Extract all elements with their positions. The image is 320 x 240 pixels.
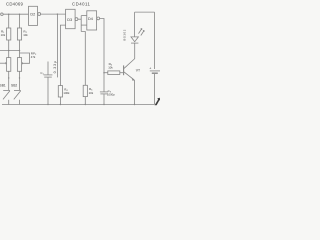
wire R5 to ground rail — [84, 97, 86, 105]
wire R1 top lead — [8, 14, 10, 28]
wire D3 out to tie bar — [78, 18, 81, 20]
transistor VT emitter — [124, 72, 134, 80]
wire R1 to RP1 — [8, 40, 10, 58]
node C3 tap — [103, 72, 105, 74]
wire R6 left lead — [104, 72, 108, 74]
svg-text:+: + — [149, 66, 151, 70]
wire D2 out to D3 input — [41, 13, 66, 15]
wire R6 to VT base — [120, 72, 123, 74]
node divider left — [8, 50, 10, 52]
resistor R5 — [83, 85, 87, 96]
wire top rail — [135, 11, 155, 13]
svg-text:47k: 47k — [31, 55, 36, 59]
switch SB1 — [3, 89, 10, 91]
wire C3 to ground rail — [103, 94, 105, 104]
svg-text:0.33μ: 0.33μ — [53, 60, 57, 73]
potentiometer RP1 — [7, 58, 11, 72]
capacitor C1 — [44, 74, 53, 76]
wire tie bar to R5 — [81, 32, 85, 86]
node ground R4 — [60, 104, 61, 105]
svg-text:VT: VT — [136, 68, 140, 72]
node ground C3 — [103, 104, 104, 105]
resistor R6 — [108, 71, 120, 75]
resistor R1 — [7, 28, 11, 40]
input terminal — [1, 13, 4, 16]
svg-text:1000p: 1000p — [107, 92, 115, 96]
node C1 tap — [57, 13, 59, 15]
svg-text:D3: D3 — [67, 18, 72, 22]
svg-text:SB1: SB1 — [0, 83, 6, 87]
wire SB1 to ground rail — [8, 100, 10, 105]
node junction R1 top — [8, 13, 10, 15]
wire C1 to ground rail — [47, 77, 49, 104]
transistor VT collector — [124, 59, 135, 69]
wire RP1 wiper from left edge — [0, 62, 5, 64]
wire SB2 to ground rail — [19, 100, 21, 105]
resistor R4 — [58, 86, 62, 97]
node SB2 top — [19, 77, 20, 78]
transistor VT base bar — [123, 65, 125, 75]
wire C3 top lead — [103, 73, 105, 92]
svg-text:SB2: SB2 — [11, 83, 17, 87]
corner artifact mark — [155, 99, 160, 106]
gate D3 — [66, 9, 76, 28]
wire collector to LED cathode — [134, 43, 136, 58]
svg-text:10k: 10k — [23, 33, 28, 37]
svg-text:CD4069: CD4069 — [6, 2, 23, 7]
LED VD triangle — [131, 37, 138, 42]
capacitor C3 — [100, 91, 108, 93]
gate D4 — [87, 11, 97, 30]
svg-text:10k: 10k — [108, 66, 113, 70]
wire R4 to ground rail — [59, 97, 61, 105]
wire D3 lower input to R4 — [60, 25, 65, 86]
node ground C1 — [47, 104, 48, 105]
svg-text:10k: 10k — [89, 91, 94, 95]
svg-text:100k: 100k — [63, 91, 70, 95]
wire battery positive lead — [154, 12, 156, 69]
node junction R2 top — [19, 13, 21, 15]
D2 output bubble — [38, 13, 41, 16]
wire LED anode to top rail — [134, 12, 136, 37]
wire RP2 to SB2 — [19, 71, 21, 90]
wire battery negative lead — [154, 74, 156, 105]
potentiometer RP2 — [17, 58, 21, 72]
svg-text:BS302: BS302 — [123, 29, 127, 41]
wire R2 to RP2 — [19, 40, 21, 58]
node ground emitter — [134, 104, 135, 105]
wire D4 input tie bar — [80, 16, 82, 32]
capacitor C1 top lead — [47, 62, 49, 75]
D3 output bubble — [75, 18, 78, 21]
wire C1 tap down — [56, 14, 58, 77]
node divider right — [19, 50, 21, 52]
LED VD cathode bar — [131, 42, 138, 44]
svg-text:CD4011: CD4011 — [72, 2, 91, 7]
wire D4 upper input — [81, 15, 87, 17]
LED emission arrow 2 — [141, 30, 144, 35]
svg-text:10k: 10k — [1, 33, 6, 37]
battery GB positive plate — [150, 70, 160, 72]
wire divider node to left edge — [0, 50, 20, 52]
inverter D2 — [29, 6, 38, 25]
wire emitter to ground rail — [134, 80, 136, 105]
D4 output bubble — [97, 17, 100, 20]
node SB1 top — [8, 77, 9, 78]
wire RP1 to SB1 — [8, 71, 10, 90]
resistor R2 — [17, 28, 21, 40]
wire D4 out down to R6 — [100, 19, 104, 73]
node ground R5 — [85, 104, 86, 105]
svg-text:D2: D2 — [30, 12, 35, 16]
switch SB2 — [14, 89, 21, 91]
wire input to D2 — [3, 13, 28, 15]
wire D4 lower input — [81, 24, 87, 26]
wire ground rail — [2, 104, 155, 106]
wire RP2 wiper link — [20, 53, 30, 63]
battery GB negative plate — [152, 72, 158, 74]
wire R2 top lead — [19, 14, 21, 28]
svg-text:D4: D4 — [88, 17, 93, 21]
LED emission arrow 1 — [139, 29, 142, 34]
